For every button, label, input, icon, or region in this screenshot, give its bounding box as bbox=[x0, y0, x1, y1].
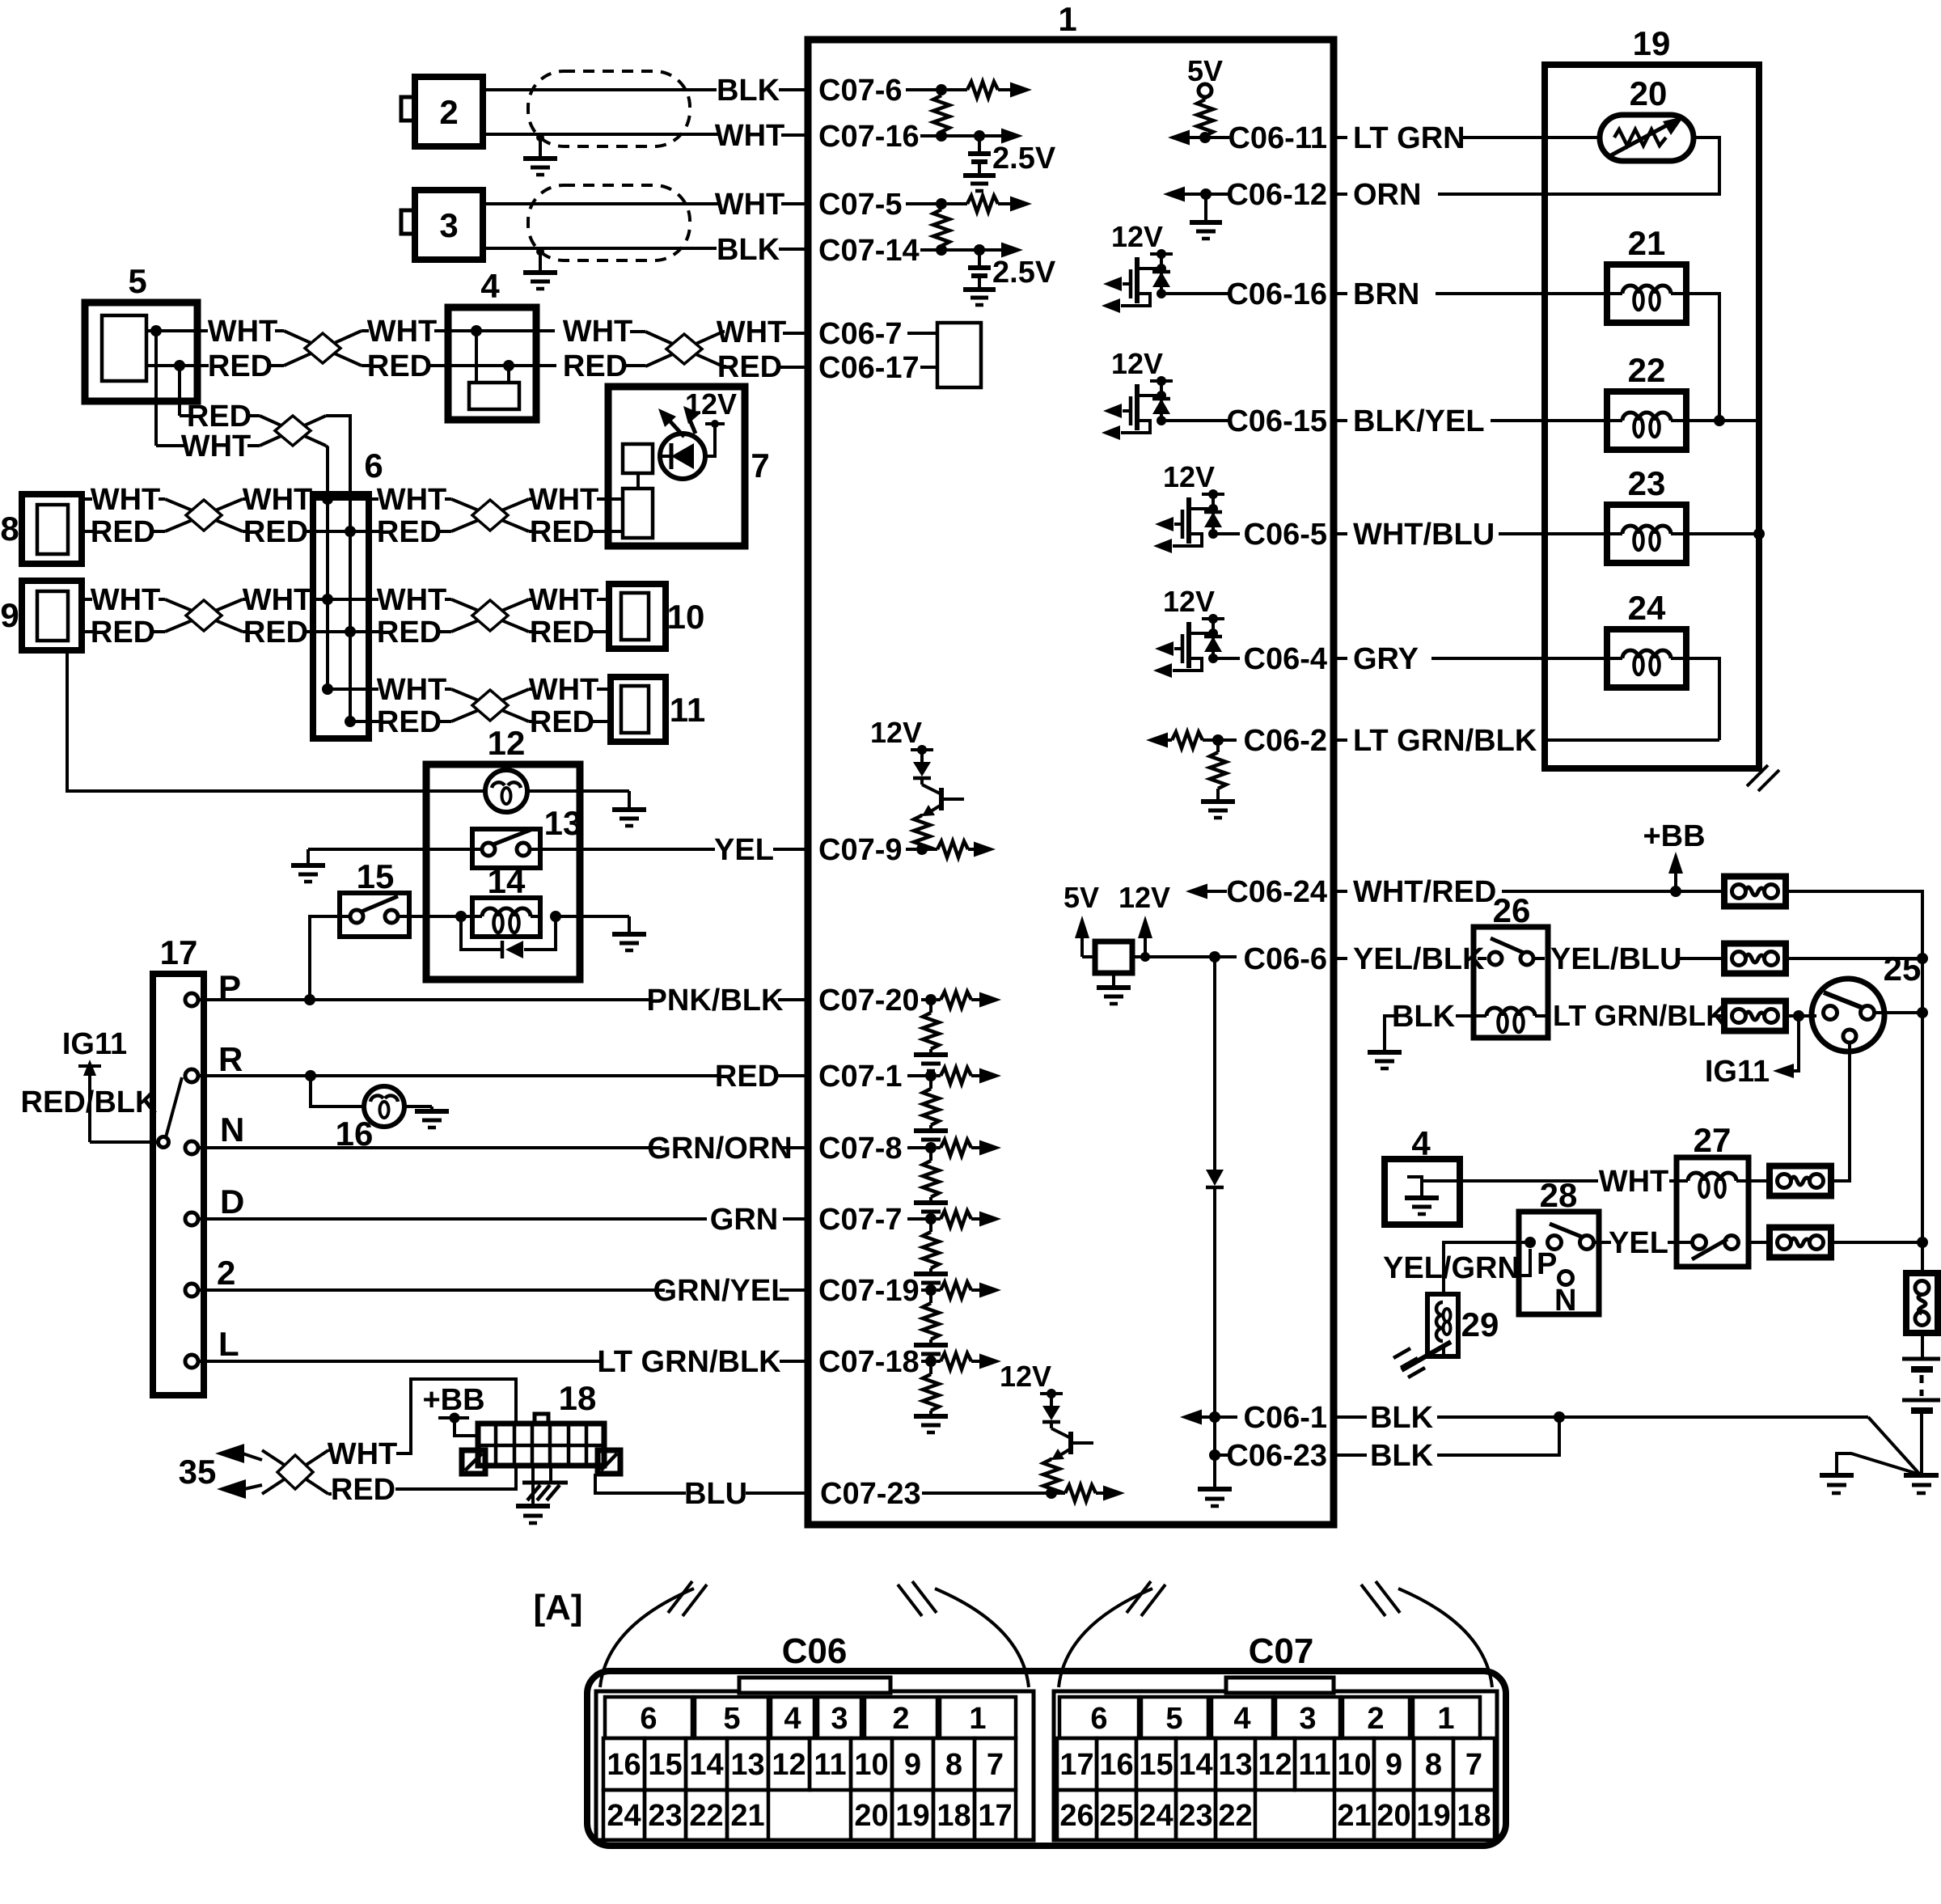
svg-text:C06-1: C06-1 bbox=[1244, 1401, 1328, 1435]
svg-text:+BB: +BB bbox=[422, 1383, 484, 1417]
switch 15 bbox=[340, 857, 409, 937]
svg-text:9: 9 bbox=[0, 596, 19, 634]
wire WHT 6 to 10 bbox=[350, 583, 451, 617]
wire C07-16 internal bbox=[920, 134, 979, 138]
wire BLK from sensor 3 bbox=[483, 233, 808, 267]
svg-text:C07-19: C07-19 bbox=[818, 1274, 920, 1308]
svg-text:17: 17 bbox=[1059, 1748, 1093, 1782]
wire WHT from 5 bbox=[146, 315, 284, 349]
svg-text:C07-7: C07-7 bbox=[818, 1203, 903, 1237]
wire 25 to right rail bbox=[1875, 958, 1928, 1242]
wire BLK/YEL C06-15 to 22 bbox=[1334, 404, 1610, 438]
wire 25 down to fuse of 27 bbox=[1829, 1043, 1850, 1181]
wire WHT into 4 bbox=[362, 315, 476, 349]
wire BRN C06-16 to 21 bbox=[1334, 277, 1610, 311]
wire WHT into 6 row8 bbox=[243, 483, 350, 517]
svg-text:LT GRN/BLK: LT GRN/BLK bbox=[597, 1345, 781, 1379]
svg-text:BLK: BLK bbox=[1370, 1439, 1434, 1473]
svg-text:3: 3 bbox=[439, 206, 458, 244]
bracket left of 18 bbox=[462, 1450, 485, 1474]
svg-text:IG11: IG11 bbox=[62, 1027, 127, 1061]
pin N bbox=[185, 1111, 244, 1154]
svg-text:7: 7 bbox=[751, 446, 769, 484]
wire YEL 28 to 27 bbox=[1593, 1226, 1692, 1260]
wire WHT from sensor 3 bbox=[483, 188, 808, 222]
svg-text:RED/BLK: RED/BLK bbox=[21, 1085, 158, 1119]
mosfet driver at C06-5 bbox=[1153, 460, 1224, 553]
LED arrows in 7 bbox=[658, 406, 700, 437]
resistor C07-6 to C07-16 bbox=[933, 90, 949, 136]
svg-text:22: 22 bbox=[689, 1799, 723, 1833]
svg-text:4: 4 bbox=[480, 267, 500, 305]
wire YEL/GRN 28 to coil 29 bbox=[1383, 1242, 1530, 1294]
svg-text:C06-4: C06-4 bbox=[1244, 642, 1328, 676]
wire LT GRN/BLK C06-2 bbox=[1334, 724, 1719, 758]
svg-text:16: 16 bbox=[336, 1115, 374, 1153]
outer connector shell bbox=[587, 1671, 1506, 1846]
wire WHT of 35 bbox=[328, 1379, 516, 1471]
C06 row2 cells bbox=[603, 1738, 1016, 1790]
svg-text:25: 25 bbox=[1099, 1799, 1133, 1833]
wire BLK C06-23 bbox=[1334, 1417, 1559, 1473]
svg-text:C06-12: C06-12 bbox=[1226, 178, 1327, 212]
wire LT GRN C06-11 to 20 bbox=[1334, 121, 1602, 155]
twisted pair 5 to 4 bbox=[284, 331, 362, 366]
svg-text:13: 13 bbox=[544, 804, 582, 842]
svg-text:RED: RED bbox=[91, 515, 155, 549]
component 4 shield box bbox=[448, 267, 536, 420]
svg-text:2: 2 bbox=[439, 93, 458, 131]
wire WHT into 10 bbox=[529, 583, 609, 617]
svg-text:8: 8 bbox=[945, 1748, 962, 1782]
wire YEL/BLU 26 to fuse bbox=[1533, 942, 1724, 976]
svg-text:C07-18: C07-18 bbox=[818, 1345, 920, 1379]
connector 17 box bbox=[153, 933, 204, 1395]
svg-text:1: 1 bbox=[1058, 0, 1076, 38]
junction and arrow at C07-16 bbox=[936, 129, 1023, 144]
svg-text:C07-23: C07-23 bbox=[820, 1477, 921, 1511]
svg-text:RED: RED bbox=[367, 349, 432, 383]
cable sweep C07 left bbox=[1059, 1581, 1165, 1687]
wire C06-4 internal bbox=[1213, 657, 1240, 660]
arrow and resistor at C06-2 bbox=[1146, 732, 1237, 748]
wire C07-7 internal bbox=[907, 1217, 931, 1221]
wire ORN C06-12 bbox=[1334, 178, 1421, 212]
wire lamp 16 to ground bbox=[404, 1106, 449, 1128]
rail C06-1 to C06-23 and ground bbox=[1198, 1417, 1232, 1506]
svg-text:24: 24 bbox=[1139, 1799, 1173, 1833]
battery bbox=[1902, 1333, 1940, 1474]
svg-text:12: 12 bbox=[488, 724, 526, 762]
mosfet driver at C06-15 bbox=[1102, 347, 1173, 440]
svg-text:21: 21 bbox=[730, 1799, 764, 1833]
wire L to C07-18 bbox=[198, 1345, 808, 1379]
svg-text:ORN: ORN bbox=[1353, 178, 1421, 212]
svg-text:8: 8 bbox=[1425, 1748, 1442, 1782]
wire C06-15 internal bbox=[1161, 419, 1229, 422]
svg-text:3: 3 bbox=[1299, 1702, 1316, 1736]
wire WHT into 7 bbox=[529, 483, 623, 517]
wire BLK from sensor 2 bbox=[483, 74, 808, 108]
fuse after 27 switch bbox=[1749, 1228, 1928, 1258]
wire WHT/BLU C06-5 to 23 bbox=[1334, 518, 1610, 552]
svg-text:22: 22 bbox=[1628, 351, 1666, 389]
svg-text:21: 21 bbox=[1628, 224, 1666, 262]
svg-text:YEL/BLU: YEL/BLU bbox=[1550, 942, 1682, 976]
connector 18 body bbox=[478, 1379, 604, 1466]
svg-text:+BB: +BB bbox=[1643, 819, 1705, 853]
svg-text:5V: 5V bbox=[1064, 881, 1099, 914]
wire C07-1 internal bbox=[907, 1074, 931, 1077]
wire C06-7 internal bbox=[907, 332, 937, 335]
box 19 bbox=[1545, 24, 1759, 768]
internal block at C06-7/C06-17 bbox=[937, 323, 981, 387]
wire 20 to C06-12 bbox=[1438, 138, 1719, 194]
component 5 bbox=[85, 262, 197, 401]
svg-text:C07-1: C07-1 bbox=[818, 1060, 903, 1094]
pin circuit C07-19 bbox=[914, 1282, 1001, 1361]
svg-text:20: 20 bbox=[1376, 1799, 1410, 1833]
svg-text:16: 16 bbox=[607, 1748, 641, 1782]
vertical fuse bbox=[1906, 1242, 1938, 1333]
svg-text:WHT: WHT bbox=[243, 483, 313, 517]
connector 8 bbox=[0, 494, 82, 564]
svg-text:N: N bbox=[1554, 1284, 1576, 1318]
svg-text:15: 15 bbox=[648, 1748, 682, 1782]
svg-text:LT GRN: LT GRN bbox=[1353, 121, 1465, 155]
svg-text:15: 15 bbox=[357, 857, 395, 895]
harness 35 arrows bbox=[179, 1444, 262, 1499]
twisted pair 6 to 11 bbox=[451, 689, 529, 721]
wire D to C07-7 bbox=[198, 1203, 808, 1237]
lamp 16 bbox=[336, 1086, 404, 1153]
wire lamp to ground bbox=[527, 791, 646, 826]
svg-text:WHT: WHT bbox=[243, 583, 313, 617]
connector 10 bbox=[609, 584, 704, 649]
svg-text:BLK: BLK bbox=[1392, 1000, 1456, 1034]
twisted pair 35 bbox=[262, 1450, 328, 1494]
svg-text:R: R bbox=[218, 1040, 243, 1078]
5V pullup at C06-11 bbox=[1187, 54, 1223, 138]
solenoid 22 bbox=[1607, 351, 1686, 450]
component 12 box bbox=[426, 724, 580, 980]
svg-text:RED: RED bbox=[530, 705, 594, 739]
svg-text:11: 11 bbox=[1298, 1748, 1330, 1782]
shield ground of sensor 2 bbox=[523, 133, 557, 175]
svg-text:2: 2 bbox=[1367, 1702, 1384, 1736]
ground box 4 bbox=[1385, 1124, 1460, 1225]
wire R to C07-1 bbox=[198, 1060, 808, 1094]
svg-text:BLK: BLK bbox=[1370, 1401, 1434, 1435]
svg-text:RED: RED bbox=[717, 350, 782, 384]
C07 row1 cells bbox=[1059, 1697, 1480, 1738]
wire 15 left riser to P line bbox=[310, 916, 350, 1000]
resistor to ground at C06-2 bbox=[1201, 740, 1235, 818]
wire RED from 5 bbox=[146, 349, 284, 383]
svg-text:16: 16 bbox=[1099, 1748, 1133, 1782]
junction box 6 bbox=[313, 446, 383, 738]
svg-text:23: 23 bbox=[1628, 464, 1666, 502]
svg-text:WHT: WHT bbox=[91, 483, 161, 517]
svg-text:GRN: GRN bbox=[710, 1203, 778, 1237]
wire C07-6 internal bbox=[906, 88, 941, 91]
svg-text:WHT/RED: WHT/RED bbox=[1353, 875, 1496, 909]
wire RED into 4 bbox=[362, 349, 509, 383]
svg-text:WHT: WHT bbox=[367, 315, 438, 349]
wire fuse to right rail bbox=[1786, 953, 1928, 964]
C06 shell bbox=[596, 1678, 1034, 1840]
component 7 box bbox=[608, 387, 770, 546]
hash at box 19 corner bbox=[1747, 765, 1779, 791]
svg-text:1: 1 bbox=[1437, 1702, 1454, 1736]
pin P bbox=[185, 968, 241, 1006]
svg-text:[A]: [A] bbox=[533, 1588, 582, 1627]
arrow at C06-24 bbox=[1186, 884, 1227, 899]
svg-text:13: 13 bbox=[1218, 1748, 1252, 1782]
wire C07-14 internal bbox=[920, 248, 979, 252]
LED in 7 bbox=[660, 434, 705, 479]
wire WHT riser into 6 bbox=[326, 446, 328, 494]
svg-text:C07-14: C07-14 bbox=[818, 234, 920, 268]
svg-text:LT GRN/BLK: LT GRN/BLK bbox=[1353, 724, 1537, 758]
wire C06-17 internal bbox=[920, 366, 937, 369]
svg-text:4: 4 bbox=[1233, 1702, 1250, 1736]
wire YEL/BLK C06-6 to relay 26 bbox=[1334, 942, 1486, 976]
svg-text:C07: C07 bbox=[1249, 1631, 1314, 1671]
wire WHT from 8 bbox=[82, 483, 165, 517]
variable resistor 20 bbox=[1600, 74, 1694, 161]
svg-text:18: 18 bbox=[1457, 1799, 1491, 1833]
coil 14 bbox=[472, 862, 540, 937]
svg-text:19: 19 bbox=[1633, 24, 1671, 62]
wire 14 to ground bbox=[556, 916, 646, 950]
svg-text:7: 7 bbox=[987, 1748, 1004, 1782]
wire RED 6 to 10 bbox=[369, 616, 451, 649]
svg-text:WHT: WHT bbox=[715, 119, 785, 153]
svg-text:27: 27 bbox=[1694, 1121, 1732, 1159]
svg-text:18: 18 bbox=[937, 1799, 970, 1833]
connector 11 bbox=[611, 677, 705, 742]
C06 row1 cells bbox=[605, 1697, 1016, 1738]
svg-text:WHT: WHT bbox=[91, 583, 161, 617]
svg-text:C06-15: C06-15 bbox=[1226, 404, 1327, 438]
svg-text:YEL/GRN: YEL/GRN bbox=[1383, 1251, 1520, 1285]
sensor 3 bbox=[401, 190, 483, 260]
wire RED riser into 6 bbox=[326, 416, 350, 494]
svg-text:YEL: YEL bbox=[1609, 1226, 1668, 1260]
svg-text:WHT: WHT bbox=[529, 483, 599, 517]
chassis ground link bbox=[1820, 1453, 1920, 1493]
relay 27 bbox=[1677, 1121, 1749, 1267]
svg-text:RED: RED bbox=[377, 616, 442, 649]
bracket right of 18 bbox=[598, 1450, 620, 1474]
wire YEL from 13 to C07-9 bbox=[530, 833, 808, 867]
svg-text:20: 20 bbox=[854, 1799, 888, 1833]
wire WHT 4 to relay 27 bbox=[1422, 1165, 1680, 1199]
svg-text:WHT: WHT bbox=[717, 315, 787, 349]
cable sweep C07 right bbox=[1361, 1581, 1492, 1687]
C07 row2 cells bbox=[1057, 1738, 1495, 1790]
svg-text:19: 19 bbox=[895, 1799, 929, 1833]
resistor and arrow at C07-6 bbox=[936, 82, 1032, 98]
fuse on YEL/BLU bbox=[1724, 944, 1786, 974]
ignition switch 25 bbox=[1812, 950, 1921, 1051]
svg-text:9: 9 bbox=[1385, 1748, 1402, 1782]
svg-text:C07-8: C07-8 bbox=[818, 1132, 903, 1166]
ECU box 1 bbox=[808, 40, 1334, 1525]
wire C07-5 internal bbox=[906, 202, 941, 205]
svg-text:C07-20: C07-20 bbox=[818, 984, 920, 1018]
svg-text:GRY: GRY bbox=[1353, 642, 1419, 676]
photodetector blocks in 7 bbox=[608, 444, 653, 538]
svg-text:1: 1 bbox=[969, 1702, 986, 1736]
svg-text:6: 6 bbox=[640, 1702, 657, 1736]
twisted pair 9 to 6 bbox=[165, 599, 243, 632]
svg-text:WHT: WHT bbox=[715, 188, 785, 222]
capacitor 2.5V at C07-14 bbox=[963, 244, 1056, 305]
transistor driver at C07-23 bbox=[1000, 1360, 1093, 1496]
capacitor 2.5V at C07-16 bbox=[963, 130, 1056, 191]
IG11 tap bbox=[1705, 1016, 1799, 1089]
C06 row3 cells bbox=[603, 1790, 1016, 1840]
svg-text:C06-5: C06-5 bbox=[1244, 518, 1328, 552]
wire WHT into 11 bbox=[529, 673, 611, 707]
wire RED into 7 bbox=[529, 515, 623, 549]
svg-text:10: 10 bbox=[1337, 1748, 1371, 1782]
internal rail from C06-6 down bbox=[1206, 957, 1224, 1417]
transistor driver at C07-9 bbox=[870, 716, 964, 852]
svg-text:WHT/BLU: WHT/BLU bbox=[1353, 518, 1495, 552]
mosfet driver at C06-16 bbox=[1102, 220, 1173, 313]
svg-text:RED: RED bbox=[377, 705, 442, 739]
twisted pair 5 to 6 bbox=[260, 416, 326, 446]
ground under 18 bbox=[516, 1466, 550, 1523]
svg-text:WHT: WHT bbox=[328, 1437, 398, 1471]
svg-text:15: 15 bbox=[1139, 1748, 1173, 1782]
svg-text:6: 6 bbox=[1090, 1702, 1107, 1736]
svg-text:C06-17: C06-17 bbox=[818, 351, 920, 385]
svg-text:35: 35 bbox=[179, 1453, 217, 1491]
wire 22 to box19 edge bbox=[1686, 415, 1759, 426]
svg-text:4: 4 bbox=[784, 1702, 801, 1736]
arrow at C06-1 bbox=[1180, 1410, 1237, 1425]
svg-text:29: 29 bbox=[1461, 1305, 1499, 1343]
C07 row3 cells bbox=[1057, 1790, 1495, 1840]
wire 23 to box19 edge bbox=[1686, 528, 1765, 539]
svg-text:BRN: BRN bbox=[1353, 277, 1419, 311]
wire RED to C06-17 bbox=[717, 350, 808, 384]
svg-text:C06-11: C06-11 bbox=[1228, 121, 1327, 155]
wire BLU from 18 to C07-23 bbox=[595, 1474, 808, 1511]
svg-text:RED: RED bbox=[331, 1473, 395, 1507]
wire WHT from 9 bbox=[82, 583, 165, 617]
svg-text:BLK: BLK bbox=[717, 233, 780, 267]
pin circuit C07-8 bbox=[914, 1140, 1001, 1219]
svg-text:WHT: WHT bbox=[563, 315, 633, 349]
shield ground of sensor 3 bbox=[523, 248, 557, 289]
battery ground bbox=[1904, 1475, 1939, 1493]
wire WHT 6 to 7 bbox=[350, 483, 451, 517]
+BB supply bbox=[1643, 819, 1705, 897]
wire C06-5 internal bbox=[1213, 532, 1240, 535]
wire GRY C06-4 to 24 bbox=[1334, 642, 1610, 676]
svg-text:RED: RED bbox=[187, 400, 252, 434]
resistor and arrow at C07-9 bbox=[916, 841, 996, 857]
wire 21 to BLK/YEL rail bbox=[1686, 294, 1719, 421]
svg-text:24: 24 bbox=[1628, 589, 1666, 627]
svg-text:14: 14 bbox=[1178, 1748, 1212, 1782]
wire RED from 4 to ECU bbox=[536, 349, 645, 383]
svg-text:6: 6 bbox=[364, 446, 383, 484]
resistor and arrow at C07-5 bbox=[936, 196, 1032, 212]
svg-text:N: N bbox=[220, 1111, 244, 1149]
svg-text:WHT: WHT bbox=[529, 673, 599, 707]
coil 29 bbox=[1427, 1294, 1499, 1356]
lamp in 12 bbox=[485, 770, 527, 812]
twisted pair 6 to 10 bbox=[451, 599, 529, 632]
wire fuse to switch 25 bbox=[1786, 1010, 1816, 1022]
svg-text:26: 26 bbox=[1059, 1799, 1093, 1833]
5V 12V supply block at C06-6 bbox=[1064, 881, 1237, 1004]
svg-text:GRN/ORN: GRN/ORN bbox=[647, 1132, 792, 1166]
pin R bbox=[185, 1040, 243, 1082]
wire WHT drop from 5 bbox=[156, 331, 260, 463]
svg-text:24: 24 bbox=[607, 1799, 641, 1833]
pin circuit C07-20 bbox=[914, 992, 1001, 1071]
svg-text:WHT: WHT bbox=[208, 315, 278, 349]
svg-text:2: 2 bbox=[217, 1254, 235, 1292]
svg-text:19: 19 bbox=[1416, 1799, 1450, 1833]
svg-text:WHT: WHT bbox=[377, 673, 447, 707]
wire RED into 6 row9 bbox=[243, 616, 369, 649]
svg-text:BLU: BLU bbox=[684, 1477, 747, 1511]
wire RED from 9 bbox=[82, 616, 165, 649]
svg-text:C06-2: C06-2 bbox=[1244, 724, 1328, 758]
switch 28 bbox=[1519, 1176, 1599, 1318]
svg-text:P: P bbox=[1537, 1247, 1557, 1281]
wire C07-23 internal bbox=[922, 1491, 1051, 1495]
svg-text:C06-6: C06-6 bbox=[1244, 942, 1328, 976]
svg-text:4: 4 bbox=[1411, 1124, 1431, 1162]
wire BLK C06-1 bbox=[1334, 1401, 1920, 1475]
diode bypass of 14 bbox=[455, 911, 561, 958]
wire BLK coil 26 to ground bbox=[1368, 1000, 1474, 1068]
svg-text:10: 10 bbox=[854, 1748, 888, 1782]
fuse on WHT/RED bbox=[1724, 877, 1786, 907]
12V tick in 7 bbox=[685, 387, 737, 456]
+BB tick at 18 bbox=[422, 1383, 484, 1436]
svg-text:13: 13 bbox=[730, 1748, 764, 1782]
svg-text:C07-6: C07-6 bbox=[818, 74, 903, 108]
svg-text:BLK: BLK bbox=[717, 74, 780, 108]
pin D bbox=[185, 1183, 244, 1225]
svg-text:RED: RED bbox=[243, 616, 308, 649]
svg-text:11: 11 bbox=[814, 1748, 846, 1782]
resistor and arrow at C07-23 bbox=[1046, 1485, 1125, 1501]
pin circuit C07-18 bbox=[914, 1353, 1001, 1432]
svg-text:C07-16: C07-16 bbox=[818, 120, 920, 154]
arrow at C06-11 bbox=[1168, 130, 1229, 146]
pin 2 bbox=[185, 1254, 235, 1297]
wire WHT into 6 row9 bbox=[243, 583, 350, 617]
svg-text:RED: RED bbox=[377, 515, 442, 549]
wire WHT 6 to 11 bbox=[322, 673, 451, 707]
wire N to C07-8 bbox=[198, 1132, 808, 1166]
fuse on LT GRN/BLK bbox=[1724, 1001, 1786, 1031]
wire fuse to right rail bbox=[1786, 891, 1922, 958]
svg-text:C07-5: C07-5 bbox=[818, 188, 903, 222]
wire LT GRN/BLK 26 to fuse bbox=[1553, 999, 1727, 1032]
